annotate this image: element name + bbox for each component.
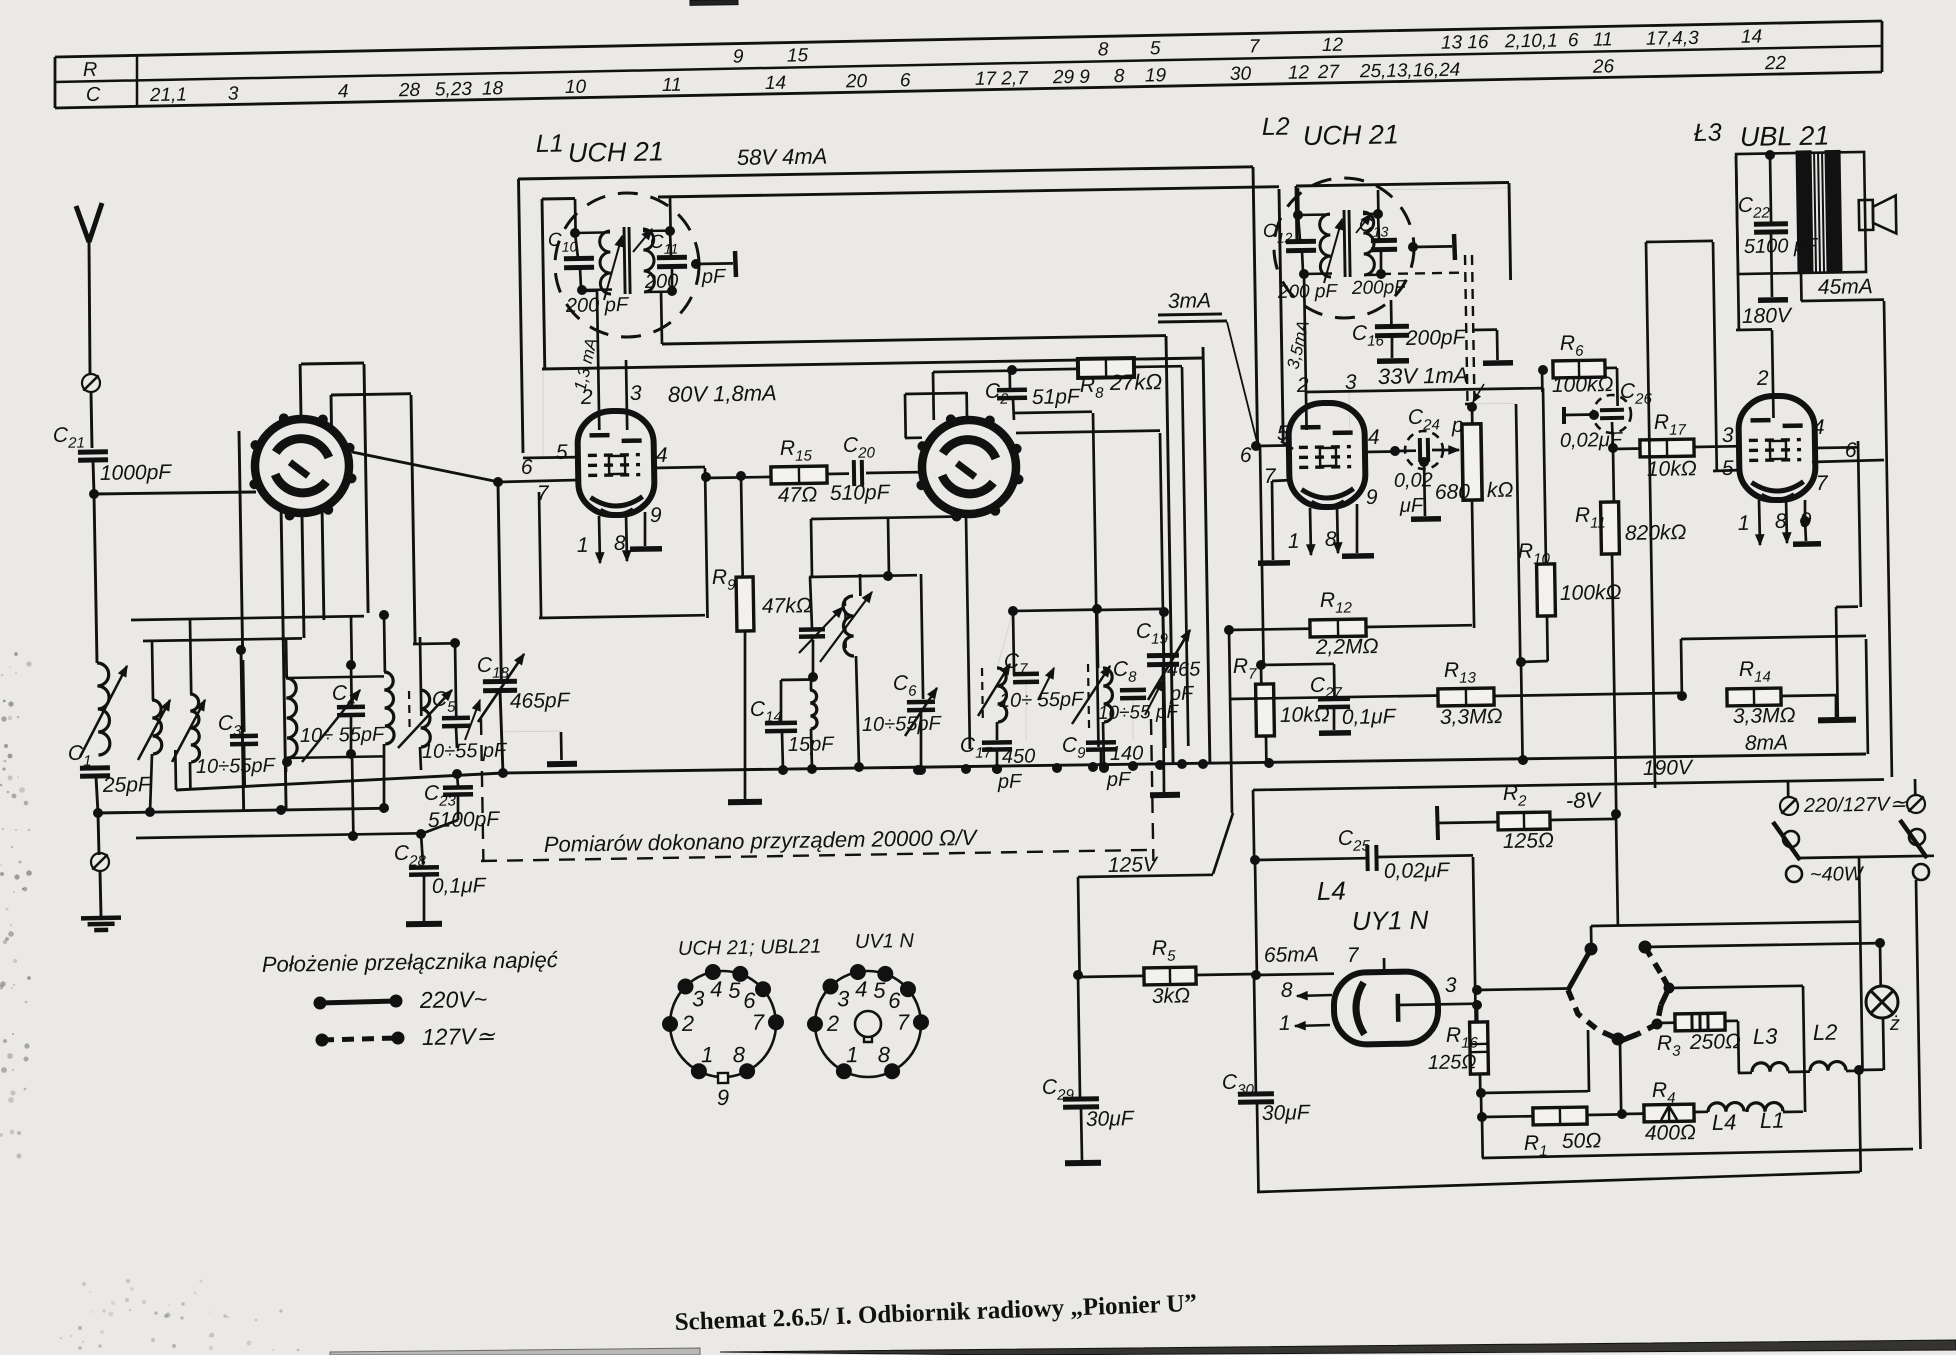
svg-text:9: 9 bbox=[717, 1085, 730, 1110]
wire S2 right y412 bbox=[1014, 412, 1092, 413]
svg-text:3: 3 bbox=[1445, 974, 1457, 997]
capacitor C21 bbox=[78, 452, 108, 460]
voltage selector bbox=[1585, 943, 1597, 955]
wire C21 to junction bbox=[93, 461, 94, 494]
svg-text:8: 8 bbox=[1281, 979, 1293, 1002]
coil 4b bbox=[383, 615, 387, 672]
svg-text:10÷ 55pF: 10÷ 55pF bbox=[300, 724, 387, 747]
capacitor C5 bbox=[455, 643, 456, 717]
connector circle bbox=[91, 853, 109, 871]
grid cap terminal bbox=[692, 260, 701, 269]
tube L1 UCH21 bbox=[577, 410, 655, 515]
svg-text:UCH 21: UCH 21 bbox=[1303, 119, 1400, 151]
svg-text:27: 27 bbox=[1317, 62, 1341, 83]
svg-text:9: 9 bbox=[650, 504, 662, 527]
svg-text:4: 4 bbox=[1368, 426, 1380, 449]
svg-text:200: 200 bbox=[644, 270, 679, 293]
capacitor C27 bbox=[1261, 664, 1334, 665]
svg-text:125V: 125V bbox=[1108, 853, 1159, 877]
bus second line bbox=[662, 336, 1166, 344]
wire C13 top right bbox=[1377, 190, 1380, 214]
grid cap terminal 2 bbox=[1409, 243, 1418, 252]
svg-text:14: 14 bbox=[1741, 26, 1762, 47]
R5 bbox=[1074, 971, 1083, 980]
inner box bottom bbox=[1481, 1117, 1484, 1158]
svg-text:ż: ż bbox=[1889, 1013, 1900, 1035]
33V rail bbox=[1307, 388, 1543, 392]
svg-text:10÷55pF: 10÷55pF bbox=[862, 713, 943, 736]
capacitor C26 bbox=[1593, 395, 1631, 433]
svg-text:200pF: 200pF bbox=[1405, 326, 1467, 350]
127V dashed pair bbox=[1465, 255, 1468, 404]
capacitor C23 bbox=[453, 770, 462, 779]
pin4 wire bbox=[1364, 450, 1395, 453]
svg-text:UCH 21: UCH 21 bbox=[568, 136, 665, 168]
svg-text:30μF: 30μF bbox=[1262, 1101, 1311, 1125]
wire S2 lower-left bbox=[811, 519, 812, 577]
svg-text:80V 1,8mA: 80V 1,8mA bbox=[668, 380, 777, 407]
pin3 wire bbox=[1348, 390, 1351, 428]
IF2 secondary bbox=[1363, 212, 1375, 275]
capacitor C2 bbox=[1008, 366, 1017, 375]
wire C11 bottom down to bus bbox=[661, 291, 662, 344]
svg-text:17,4,3: 17,4,3 bbox=[1646, 28, 1700, 50]
wire left loop to pin2 bbox=[1736, 156, 1739, 330]
svg-text:1: 1 bbox=[1738, 512, 1750, 535]
pin4 wire bbox=[1815, 446, 1858, 449]
220/127V bbox=[1780, 797, 1798, 815]
svg-text:33V 1mA: 33V 1mA bbox=[1378, 363, 1469, 389]
svg-text:3,3MΩ: 3,3MΩ bbox=[1440, 705, 1503, 729]
pin7 wire bbox=[1272, 480, 1292, 481]
coil 5 bbox=[420, 690, 430, 747]
svg-text:3: 3 bbox=[1345, 371, 1357, 394]
svg-text:20: 20 bbox=[845, 71, 868, 92]
capacitor C6 bbox=[921, 574, 923, 699]
capacitor C17 bbox=[982, 742, 1012, 749]
svg-text:12: 12 bbox=[1322, 35, 1344, 56]
wire S2 right y433 bbox=[1016, 431, 1160, 433]
vertical -8V down bbox=[1616, 814, 1618, 926]
osc coil group bbox=[809, 575, 917, 577]
pin9 ground bbox=[1356, 504, 1359, 553]
connector circle bbox=[82, 374, 100, 392]
osc variable cap bbox=[799, 629, 825, 636]
svg-text:26: 26 bbox=[1592, 56, 1615, 77]
svg-text:200 pF: 200 pF bbox=[1277, 281, 1339, 303]
svg-text:190V: 190V bbox=[1643, 756, 1694, 780]
wire bbox=[91, 392, 92, 448]
svg-text:30μF: 30μF bbox=[1086, 1107, 1135, 1131]
wire S2 top bbox=[965, 392, 968, 418]
wire C2-R8 top rail bbox=[1012, 369, 1079, 370]
svg-text:45mA: 45mA bbox=[1818, 275, 1873, 299]
resistor R13 bbox=[1229, 696, 1440, 700]
svg-text:1: 1 bbox=[1288, 530, 1300, 553]
pin 3 wire bbox=[626, 360, 627, 430]
svg-text:0,02μF: 0,02μF bbox=[1384, 859, 1451, 883]
svg-text:18: 18 bbox=[482, 78, 504, 99]
svg-text:5: 5 bbox=[556, 441, 568, 464]
svg-text:2,10,1: 2,10,1 bbox=[1504, 31, 1558, 53]
resistor R15 bbox=[771, 466, 827, 484]
svg-text:125Ω: 125Ω bbox=[1428, 1051, 1477, 1074]
box bottom bbox=[1257, 1103, 1259, 1192]
svg-text:6: 6 bbox=[1240, 444, 1252, 467]
svg-text:~40W: ~40W bbox=[1810, 863, 1865, 886]
svg-text:0,02: 0,02 bbox=[1394, 469, 1433, 492]
wire S2 bottom stub bbox=[966, 516, 970, 749]
svg-text:7: 7 bbox=[752, 1010, 765, 1035]
antenna coil L bbox=[97, 663, 110, 755]
wire top bbox=[1766, 151, 1775, 160]
bus C chassis long bbox=[176, 773, 503, 790]
ground bbox=[81, 918, 121, 931]
svg-text:25,13,16,24: 25,13,16,24 bbox=[1359, 60, 1461, 83]
svg-text:4: 4 bbox=[656, 444, 668, 467]
svg-text:7: 7 bbox=[1249, 36, 1261, 57]
svg-text:6: 6 bbox=[521, 456, 533, 479]
svg-text:pF: pF bbox=[701, 266, 727, 288]
chassis bus long bbox=[503, 754, 1866, 773]
R16 bottom link bbox=[1481, 1091, 1588, 1093]
svg-text:2: 2 bbox=[681, 1011, 695, 1036]
wire C2 line left bbox=[933, 371, 1012, 372]
wire L1 inner box bbox=[542, 199, 545, 369]
svg-text:7: 7 bbox=[1264, 465, 1277, 488]
wire pin2 bbox=[1304, 274, 1307, 430]
capacitor C4 bbox=[350, 617, 353, 665]
C7 group bbox=[1013, 610, 1097, 611]
svg-text:μF: μF bbox=[1399, 495, 1425, 517]
resistor R10 bbox=[1537, 564, 1556, 616]
left links bbox=[131, 616, 364, 620]
bus third line bbox=[542, 358, 1203, 369]
capacitor C29 bbox=[1078, 975, 1080, 1097]
svg-text:3: 3 bbox=[1722, 424, 1734, 447]
svg-text:UBL 21: UBL 21 bbox=[1740, 121, 1830, 152]
svg-text:10÷55pF: 10÷55pF bbox=[196, 755, 277, 778]
svg-text:8: 8 bbox=[1114, 66, 1125, 87]
svg-text:L2: L2 bbox=[1813, 1020, 1838, 1045]
capacitor C28 bbox=[421, 834, 423, 864]
IF2 primary coil bbox=[1320, 214, 1332, 277]
table R/C parts index bbox=[55, 21, 1882, 57]
svg-text:14: 14 bbox=[765, 73, 786, 94]
svg-text:22: 22 bbox=[1764, 53, 1787, 74]
svg-text:11: 11 bbox=[1593, 29, 1613, 50]
svg-text:8mA: 8mA bbox=[1745, 731, 1789, 755]
svg-text:7: 7 bbox=[1347, 944, 1360, 967]
svg-text:L4: L4 bbox=[1317, 876, 1346, 906]
40W bbox=[1799, 856, 1934, 858]
pin6 wire bbox=[1812, 460, 1884, 462]
cathode box bbox=[539, 492, 541, 618]
capacitor C1 bbox=[80, 768, 110, 776]
IF1 core bbox=[624, 227, 625, 294]
svg-text:465pF: 465pF bbox=[510, 689, 571, 713]
svg-text:1: 1 bbox=[701, 1042, 714, 1067]
capacitor C14 bbox=[780, 680, 783, 721]
svg-text:5: 5 bbox=[1722, 457, 1734, 480]
svg-text:6: 6 bbox=[900, 70, 911, 91]
output transformer bbox=[1736, 150, 1866, 274]
svg-text:0,1μF: 0,1μF bbox=[432, 874, 487, 898]
svg-text:12: 12 bbox=[1288, 62, 1310, 83]
R12 left vertical to R5 path bbox=[1229, 630, 1232, 813]
capacitor C18 variable bbox=[498, 483, 501, 681]
scan artifacts bbox=[8, 716, 12, 720]
C18 top bar terminal bbox=[560, 732, 563, 760]
svg-text:UCH 21; UBL21: UCH 21; UBL21 bbox=[678, 936, 822, 960]
resistor R17 bbox=[1613, 447, 1641, 450]
UY1N box top bbox=[1253, 790, 1254, 860]
svg-text:100kΩ: 100kΩ bbox=[1552, 373, 1614, 397]
wire S1 verticals down bbox=[239, 431, 243, 650]
link C4 coil4b bbox=[286, 676, 384, 678]
svg-text:L2: L2 bbox=[1262, 113, 1290, 141]
svg-text:6: 6 bbox=[888, 988, 901, 1013]
IF transformer 2 bbox=[1274, 178, 1414, 318]
svg-text:510pF: 510pF bbox=[830, 481, 891, 505]
svg-text:5: 5 bbox=[1277, 422, 1289, 445]
wire down to gnd bbox=[98, 813, 99, 855]
wire C19 top link bbox=[1097, 609, 1163, 610]
bus A wire bbox=[98, 808, 384, 813]
svg-text:3mA: 3mA bbox=[1168, 289, 1212, 313]
mains switch right bbox=[1914, 779, 1917, 796]
svg-text:1: 1 bbox=[846, 1042, 859, 1067]
tube L3 UBL21 bbox=[1738, 395, 1816, 500]
svg-text:3: 3 bbox=[837, 986, 850, 1011]
dashed box measurement bbox=[481, 719, 483, 861]
svg-text:L3: L3 bbox=[1753, 1024, 1779, 1049]
svg-text:Położenie przełącznika napięć: Położenie przełącznika napięć bbox=[262, 947, 558, 977]
svg-text:8: 8 bbox=[878, 1042, 891, 1067]
pin 9 ground bbox=[644, 512, 647, 546]
capacitor C11 bbox=[666, 227, 675, 236]
potentiometer 680k bbox=[1462, 424, 1482, 500]
IF1 primary coil bbox=[600, 231, 612, 294]
svg-text:65mA: 65mA bbox=[1264, 943, 1319, 967]
8mA loop bbox=[1680, 639, 1684, 696]
svg-text:15: 15 bbox=[787, 45, 809, 66]
svg-text:47Ω: 47Ω bbox=[778, 483, 818, 507]
svg-text:7: 7 bbox=[897, 1010, 910, 1035]
vertical x1520 bbox=[1516, 404, 1520, 662]
svg-text:220V~: 220V~ bbox=[419, 986, 488, 1013]
svg-text:pF: pF bbox=[997, 771, 1023, 793]
capacitor C10 bbox=[571, 229, 580, 238]
selector wires bbox=[1591, 922, 1859, 926]
svg-text:140: 140 bbox=[1110, 742, 1144, 765]
resistor R8 bbox=[1078, 358, 1134, 378]
capacitor C20 bbox=[854, 460, 862, 486]
svg-text:2,2MΩ: 2,2MΩ bbox=[1315, 635, 1379, 659]
capacitor C9 bbox=[1086, 742, 1116, 749]
svg-text:3kΩ: 3kΩ bbox=[1152, 984, 1191, 1008]
R16 bbox=[1473, 986, 1482, 995]
mains switch left bbox=[1787, 782, 1790, 797]
svg-text:25pF: 25pF bbox=[102, 773, 152, 797]
wire S1 right diagonal to pin6 node bbox=[352, 452, 499, 482]
svg-text:2: 2 bbox=[1756, 367, 1769, 390]
IF2 core bbox=[1344, 210, 1345, 277]
svg-text:6: 6 bbox=[1568, 30, 1579, 51]
wire bbox=[827, 472, 849, 475]
resistor R11 bbox=[1612, 448, 1616, 502]
svg-text:4: 4 bbox=[855, 976, 868, 1001]
L2 box bbox=[1295, 186, 1299, 240]
svg-text:5: 5 bbox=[728, 978, 741, 1003]
capacitor C3 bbox=[243, 660, 244, 732]
svg-text:100kΩ: 100kΩ bbox=[1560, 581, 1622, 605]
svg-text:180V: 180V bbox=[1742, 304, 1793, 328]
resistor R12 bbox=[1229, 629, 1313, 630]
coil C14 side bbox=[810, 677, 813, 690]
wire S1 top up bbox=[299, 364, 303, 417]
svg-text:9: 9 bbox=[733, 46, 744, 67]
svg-text:pF: pF bbox=[1106, 769, 1132, 791]
resistor R6 bbox=[1553, 360, 1605, 378]
C24 bottom lead bbox=[1424, 460, 1425, 516]
svg-text:27kΩ: 27kΩ bbox=[1109, 369, 1163, 395]
svg-text:820kΩ: 820kΩ bbox=[1625, 521, 1687, 545]
wire L1 box bottom link bbox=[523, 456, 578, 460]
node bus A left bbox=[94, 809, 103, 818]
small gnd stub bbox=[1496, 330, 1499, 360]
resistor R14 bbox=[1727, 688, 1781, 706]
coil 2 bbox=[152, 641, 153, 700]
svg-text:127V≃: 127V≃ bbox=[422, 1023, 496, 1050]
svg-text:11: 11 bbox=[662, 75, 682, 96]
svg-text:4: 4 bbox=[710, 976, 723, 1001]
wire C11 top to box bbox=[669, 197, 672, 231]
svg-text:4: 4 bbox=[1813, 416, 1825, 439]
svg-text:6: 6 bbox=[1845, 439, 1857, 462]
svg-text:10: 10 bbox=[565, 77, 587, 98]
svg-text:30: 30 bbox=[1230, 64, 1252, 85]
svg-text:-8V: -8V bbox=[1566, 787, 1603, 813]
svg-text:UY1 N: UY1 N bbox=[1352, 905, 1429, 936]
svg-text:Ł3: Ł3 bbox=[1694, 119, 1722, 147]
svg-text:6: 6 bbox=[743, 988, 756, 1013]
svg-text:1: 1 bbox=[1279, 1012, 1291, 1035]
wire pin4 to R15 bbox=[702, 473, 711, 482]
svg-text:10÷55 pF: 10÷55 pF bbox=[1098, 702, 1180, 724]
svg-text:0,1μF: 0,1μF bbox=[1342, 705, 1397, 729]
svg-text:220/127V≃: 220/127V≃ bbox=[1803, 793, 1908, 817]
svg-text:3: 3 bbox=[228, 83, 239, 104]
svg-text:pF: pF bbox=[1169, 683, 1195, 705]
svg-text:3,3MΩ: 3,3MΩ bbox=[1733, 704, 1796, 728]
capacitor C16 bbox=[1390, 300, 1393, 324]
wire bbox=[100, 871, 101, 916]
svg-text:1000pF: 1000pF bbox=[100, 461, 173, 485]
capacitor C25 bbox=[1251, 856, 1260, 865]
svg-text:5: 5 bbox=[873, 978, 886, 1003]
wire L1 outer loop bbox=[519, 179, 524, 453]
svg-text:3: 3 bbox=[630, 382, 642, 405]
coil 4 bbox=[285, 638, 288, 678]
capacitor C22 bbox=[1770, 155, 1771, 222]
bus B wire bbox=[136, 833, 421, 838]
wires above C5 bbox=[413, 642, 455, 645]
tube L2 UCH21 bbox=[1288, 402, 1366, 507]
C8 group bbox=[1088, 664, 1089, 731]
svg-text:5,23: 5,23 bbox=[435, 79, 473, 101]
wire 33V to R6 bbox=[1539, 366, 1548, 375]
R7 resistor bbox=[1260, 446, 1264, 665]
svg-text:kΩ: kΩ bbox=[1487, 479, 1514, 502]
svg-text:9: 9 bbox=[1366, 486, 1378, 509]
svg-text:400Ω: 400Ω bbox=[1645, 1121, 1696, 1145]
svg-text:28: 28 bbox=[398, 80, 421, 101]
lamp bbox=[1879, 943, 1882, 986]
svg-text:10kΩ: 10kΩ bbox=[1647, 457, 1697, 481]
IF transformer 1 bbox=[555, 193, 699, 337]
wire C20 to S2 bbox=[866, 471, 922, 475]
svg-text:200pF: 200pF bbox=[1351, 277, 1408, 299]
svg-text:17 2,7: 17 2,7 bbox=[975, 68, 1030, 90]
svg-text:21,1: 21,1 bbox=[149, 84, 187, 106]
IF1 secondary coil bbox=[643, 229, 655, 292]
svg-text:UV1 N: UV1 N bbox=[855, 930, 915, 953]
C26 left T lead bbox=[1564, 413, 1594, 416]
node A bbox=[809, 673, 818, 682]
antenna bbox=[76, 206, 89, 242]
capacitor C19 variable bbox=[1162, 612, 1166, 655]
wire C1 down bbox=[96, 777, 98, 813]
capacitor C13 bbox=[1374, 210, 1383, 219]
R4 R1 row bbox=[1623, 1112, 1645, 1115]
pin6 node bbox=[1252, 442, 1261, 451]
svg-text:7: 7 bbox=[1816, 472, 1829, 495]
wire R8 right down bbox=[1133, 365, 1182, 368]
band switch S1 bbox=[249, 413, 357, 521]
coil 3 bbox=[190, 620, 191, 694]
wire S1 upper-right loop bbox=[331, 394, 411, 395]
svg-text:C: C bbox=[86, 84, 101, 106]
svg-text:L1: L1 bbox=[536, 130, 564, 158]
svg-text:2: 2 bbox=[580, 386, 593, 409]
svg-text:8: 8 bbox=[733, 1042, 746, 1067]
svg-text:19: 19 bbox=[1145, 65, 1167, 86]
osc coil bbox=[859, 574, 862, 596]
tube L4 UY1N bbox=[1333, 971, 1438, 1045]
wire junction down to coil bbox=[94, 494, 97, 663]
svg-text:3: 3 bbox=[692, 986, 705, 1011]
wire down x420 bbox=[420, 637, 421, 716]
R3 bbox=[1657, 1021, 1676, 1024]
svg-text:50Ω: 50Ω bbox=[1562, 1129, 1602, 1153]
svg-text:R: R bbox=[83, 59, 98, 81]
svg-text:58V 4mA: 58V 4mA bbox=[737, 144, 828, 170]
pin5 bar bbox=[542, 369, 544, 458]
R1 bbox=[1482, 1115, 1533, 1119]
node junction antenna bbox=[90, 490, 99, 499]
svg-text:2: 2 bbox=[1296, 374, 1309, 397]
R9 resistor bbox=[736, 577, 754, 631]
svg-text:29 9: 29 9 bbox=[1052, 67, 1091, 89]
capacitor C30 bbox=[1254, 975, 1256, 1092]
svg-text:1: 1 bbox=[577, 534, 589, 557]
svg-text:47kΩ: 47kΩ bbox=[762, 594, 812, 618]
svg-text:5: 5 bbox=[1150, 38, 1161, 59]
svg-text:10÷55 pF: 10÷55 pF bbox=[422, 740, 509, 763]
band switch S2 bbox=[916, 414, 1024, 522]
arrow into potentiometer bbox=[1432, 449, 1459, 452]
